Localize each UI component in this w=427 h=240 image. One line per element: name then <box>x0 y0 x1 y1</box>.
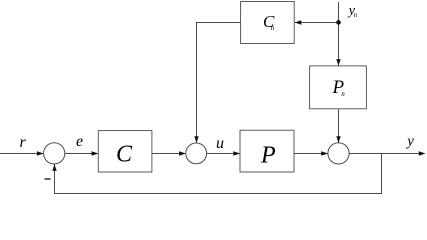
summing junction S1 <box>44 143 65 164</box>
wire yn vertical <box>338 2 340 66</box>
summing junction S3 <box>328 143 349 164</box>
wire Pn output down to sum3 <box>338 109 340 144</box>
wire feedback down segment <box>55 154 382 194</box>
arrowhead into block C <box>92 151 99 155</box>
wire r input <box>0 153 43 155</box>
block C <box>98 131 152 172</box>
arrowhead into Cn right <box>295 20 302 24</box>
summing junction S2 <box>186 143 207 164</box>
wire y output <box>349 153 424 155</box>
svg-text:n: n <box>341 90 345 98</box>
wire e: sum1 to block C <box>65 153 98 155</box>
wire P output to sum3 <box>294 153 328 155</box>
svg-text:e: e <box>76 133 83 150</box>
arrowhead into S1 <box>37 151 44 155</box>
wire Cn output left segment <box>197 23 241 144</box>
junction dot on yn line <box>336 20 341 25</box>
wire yn branch to Cn <box>295 22 339 24</box>
arrowhead into S2 left <box>179 151 186 155</box>
svg-text:P: P <box>260 143 276 169</box>
svg-text:C: C <box>116 142 133 168</box>
arrowhead into block P <box>233 151 240 155</box>
arrowhead into S2 top <box>194 136 198 143</box>
block Pn <box>310 66 367 109</box>
arrowhead into S3 top <box>336 136 340 143</box>
block Cn <box>241 2 295 44</box>
wire u: sum2 to block P <box>207 153 240 155</box>
arrowhead y output <box>419 151 426 155</box>
arrowhead into Pn top <box>336 59 340 66</box>
arrowhead into S3 left <box>321 151 328 155</box>
svg-text:n: n <box>271 24 275 32</box>
block P <box>240 130 294 172</box>
svg-text:r: r <box>20 134 27 151</box>
minus sign at S1 <box>45 178 51 180</box>
wire C output to sum2 <box>152 153 185 155</box>
svg-text:u: u <box>216 135 224 152</box>
svg-text:y: y <box>405 134 414 150</box>
svg-text:n: n <box>354 11 358 19</box>
arrowhead into S1 bottom <box>52 164 56 171</box>
